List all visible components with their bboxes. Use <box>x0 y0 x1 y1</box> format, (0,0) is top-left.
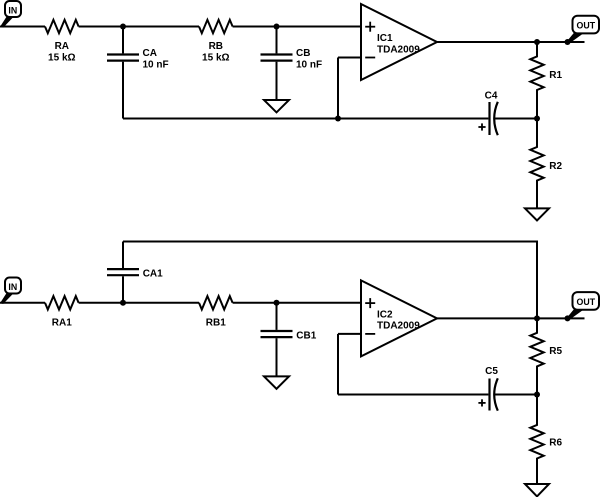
wire IN to RA1 (bottom) <box>0 302 45 304</box>
wire CA1 feedback top <box>123 242 537 319</box>
capacitor C4 <box>478 102 497 135</box>
capacitor CB <box>261 27 293 100</box>
svg-text:R1: R1 <box>549 70 562 81</box>
wire feedback bottom (bottom circuit) <box>338 394 488 396</box>
junction node CA1 tap <box>120 300 126 306</box>
junction node A (RA/CA/RB) <box>120 24 126 30</box>
svg-text:CA: CA <box>143 48 157 59</box>
svg-text:RB: RB <box>209 41 223 52</box>
svg-text:IC1: IC1 <box>377 33 393 44</box>
junction OUT tap (bottom) <box>565 315 571 321</box>
svg-text:IC2: IC2 <box>377 310 393 321</box>
ground under CB <box>264 100 289 112</box>
svg-text:CA1: CA1 <box>143 269 163 280</box>
junction node D (R5/R6/C5) <box>534 392 540 398</box>
wire C4 to node C <box>495 118 537 120</box>
wire node B to IC1 plus input <box>277 26 362 28</box>
svg-text:R6: R6 <box>549 438 562 449</box>
junction IC1 output / R1 <box>534 39 540 45</box>
svg-text:RA: RA <box>55 41 69 52</box>
wire IC1 output <box>437 41 585 43</box>
svg-text:IN: IN <box>8 5 17 15</box>
wire feedback vertical to IC2 minus <box>337 334 339 395</box>
ground under R6 <box>525 484 549 496</box>
svg-text:IN: IN <box>8 282 17 292</box>
capacitor CA <box>107 27 139 119</box>
svg-text:TDA2009: TDA2009 <box>377 44 420 55</box>
junction feedback / IC1 minus branch <box>335 116 341 122</box>
wire RA to node A <box>79 26 123 28</box>
svg-text:R5: R5 <box>549 346 562 357</box>
resistor R5 <box>530 318 543 394</box>
junction IC2 output / R5 <box>534 315 540 321</box>
svg-text:10 nF: 10 nF <box>143 59 169 70</box>
wire IC2 output <box>437 317 585 319</box>
terminal IN (bottom) <box>0 278 21 304</box>
capacitor CB1 <box>261 303 293 376</box>
wire RB1 to IC2 plus input <box>233 302 361 304</box>
svg-text:OUT: OUT <box>577 297 596 307</box>
svg-text:OUT: OUT <box>577 21 596 31</box>
wire IN to RA (top) <box>0 26 45 28</box>
svg-text:C4: C4 <box>485 90 498 101</box>
svg-text:R2: R2 <box>549 161 562 172</box>
wire C5 to node D <box>495 394 537 396</box>
wire RA1 to RB1 <box>79 302 199 304</box>
resistor R6 <box>530 395 543 484</box>
svg-text:CB: CB <box>296 48 310 59</box>
junction OUT tap (top) <box>565 39 571 45</box>
resistor RB1 <box>199 296 233 309</box>
terminal OUT (top) <box>567 16 600 43</box>
op-amp U2 IC2 <box>361 280 437 356</box>
svg-text:CB1: CB1 <box>296 330 316 341</box>
resistor RA <box>45 20 79 33</box>
resistor R1 <box>530 42 543 119</box>
op-amp U1 IC1 <box>361 4 437 80</box>
svg-text:10 nF: 10 nF <box>296 59 322 70</box>
junction node B (RB/CB/IC1+) <box>274 24 280 30</box>
svg-text:C5: C5 <box>485 366 498 377</box>
svg-text:15 kΩ: 15 kΩ <box>48 53 75 64</box>
wire RB to node B <box>233 26 277 28</box>
wire to IC2 minus input <box>338 333 361 335</box>
resistor RB <box>199 20 233 33</box>
terminal IN (top) <box>0 1 21 28</box>
svg-text:RB1: RB1 <box>206 317 226 328</box>
resistor R2 <box>530 119 543 208</box>
capacitor C5 <box>478 378 497 410</box>
svg-text:15 kΩ: 15 kΩ <box>202 53 229 64</box>
resistor RA1 <box>45 296 79 309</box>
junction node C (R1/R2/C4) <box>534 116 540 122</box>
capacitor CA1 <box>107 242 139 303</box>
ground under R2 <box>525 208 549 220</box>
wire feedback bottom (top circuit) <box>123 118 488 120</box>
wire to IC1 minus input <box>338 57 361 59</box>
svg-text:TDA2009: TDA2009 <box>377 321 420 332</box>
ground under CB1 <box>264 376 289 388</box>
svg-text:RA1: RA1 <box>52 317 72 328</box>
wire node A to RB <box>123 26 199 28</box>
terminal OUT (bottom) <box>567 292 600 319</box>
wire feedback vertical to IC1 minus <box>337 58 339 119</box>
junction node CB1 tap <box>274 300 280 306</box>
